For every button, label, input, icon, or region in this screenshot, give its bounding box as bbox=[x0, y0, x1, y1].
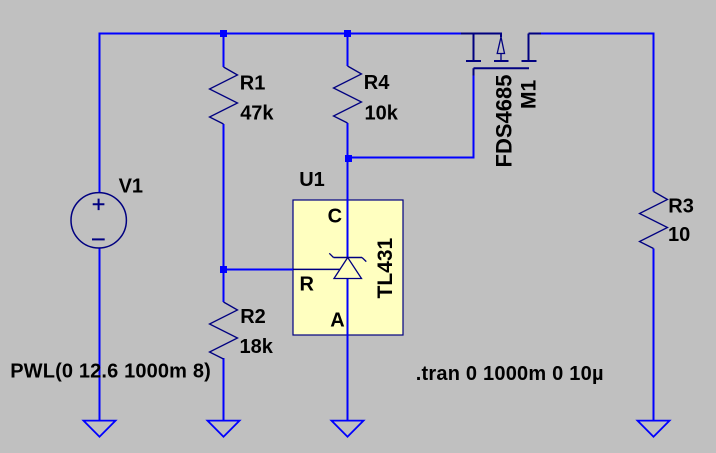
svg-text:A: A bbox=[330, 310, 344, 332]
svg-text:R: R bbox=[300, 273, 315, 295]
svg-text:PWL(0 12.6 1000m 8): PWL(0 12.6 1000m 8) bbox=[10, 360, 211, 382]
svg-text:R3: R3 bbox=[668, 196, 694, 218]
svg-text:10: 10 bbox=[668, 224, 690, 246]
svg-text:18k: 18k bbox=[240, 336, 274, 358]
svg-text:M1: M1 bbox=[518, 80, 541, 109]
svg-text:V1: V1 bbox=[119, 176, 143, 198]
svg-text:47k: 47k bbox=[240, 103, 274, 125]
svg-text:U1: U1 bbox=[299, 169, 325, 191]
svg-text:R1: R1 bbox=[240, 72, 266, 94]
svg-text:10k: 10k bbox=[365, 102, 399, 124]
svg-text:R2: R2 bbox=[240, 306, 266, 328]
svg-text:FDS4685: FDS4685 bbox=[492, 75, 517, 168]
svg-text:C: C bbox=[328, 206, 342, 228]
svg-text:R4: R4 bbox=[364, 72, 390, 94]
svg-text:TL431: TL431 bbox=[374, 237, 397, 298]
svg-text:.tran 0 1000m 0 10µ: .tran 0 1000m 0 10µ bbox=[416, 363, 604, 385]
